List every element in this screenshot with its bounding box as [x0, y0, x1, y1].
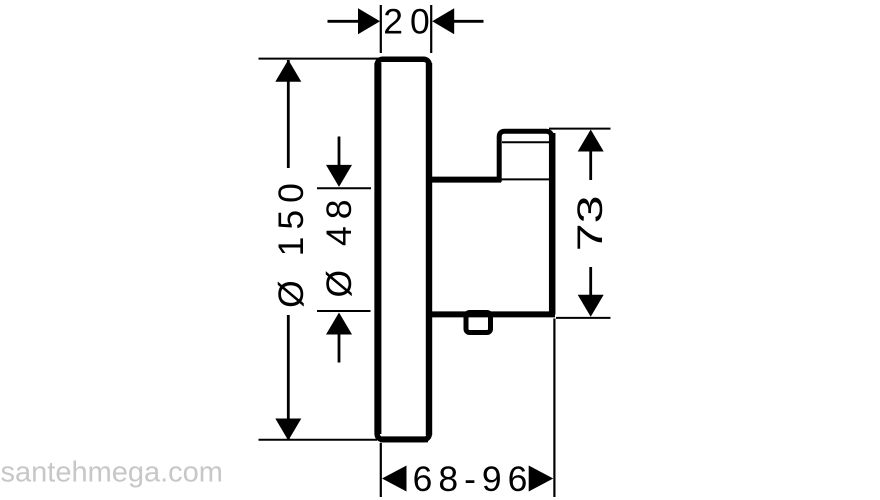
svg-text:santehmega.com: santehmega.com: [1, 457, 223, 489]
svg-text:20: 20: [383, 2, 437, 42]
svg-text:68-96: 68-96: [413, 459, 534, 499]
svg-text:73: 73: [570, 195, 610, 251]
svg-text:Ø 48: Ø 48: [319, 193, 359, 298]
svg-text:Ø 150: Ø 150: [271, 176, 311, 308]
